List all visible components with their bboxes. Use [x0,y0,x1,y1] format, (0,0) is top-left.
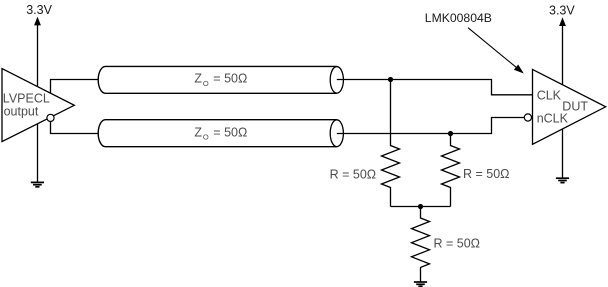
wire: inverting output to bottom transmission line [51,122,99,134]
resistor R2 = 50 ohm (right termination) [442,134,460,207]
ground GND right [556,178,569,182]
svg-text:3.3V: 3.3V [26,3,52,17]
svg-text:R = 50Ω: R = 50Ω [434,237,481,251]
svg-text:O: O [203,133,209,142]
wire: top line to CLK input (with step) [337,80,533,95]
svg-text:nCLK: nCLK [537,112,569,126]
svg-text:output: output [4,104,39,118]
wire: right 3.3V power rail [562,24,564,178]
node: junction at resistor common point [418,204,423,209]
wire: left 3.3V power rail [37,24,39,183]
svg-text:Z: Z [194,125,202,139]
wire: bottom line to nCLK input (with step) [337,118,525,134]
resistor R1 = 50 ohm (left termination) [382,80,400,207]
wire: non-inverting output to top transmission line [51,80,99,94]
pointer arrow from label to DUT [468,28,518,69]
wire: joins R1 and R2 bottoms [391,206,451,208]
transmission line T2 Zo=50 (bottom coax cylinder) [98,120,343,147]
svg-text:= 50Ω: = 50Ω [213,72,247,86]
svg-text:3.3V: 3.3V [549,4,575,18]
inversion bubble on LVPECL inverting output [47,114,54,121]
svg-text:Z: Z [194,72,202,86]
ground GND left [31,182,44,186]
resistor R3 = 50 ohm (to ground) [412,207,430,283]
svg-text:R = 50Ω: R = 50Ω [330,167,377,181]
svg-text:= 50Ω: = 50Ω [213,125,247,139]
svg-text:LMK00804B: LMK00804B [425,11,492,25]
node: junction on top wire [388,77,393,82]
svg-text:R = 50Ω: R = 50Ω [463,167,510,181]
node: junction on bottom wire [448,131,453,136]
svg-text:O: O [203,79,209,88]
svg-text:CLK: CLK [537,89,562,103]
power arrow left 3.3V [34,17,41,26]
transmission line T1 Zo=50 (top coax cylinder) [98,66,343,93]
buffer U1 LVPECL output (triangle) [2,69,74,142]
svg-text:LVPECL: LVPECL [3,92,50,106]
buffer U2 DUT (triangle) [533,69,606,144]
inversion bubble on nCLK input [524,114,531,121]
svg-text:DUT: DUT [562,100,588,114]
ground GND bottom [414,282,427,286]
power arrow right 3.3V [559,17,566,26]
